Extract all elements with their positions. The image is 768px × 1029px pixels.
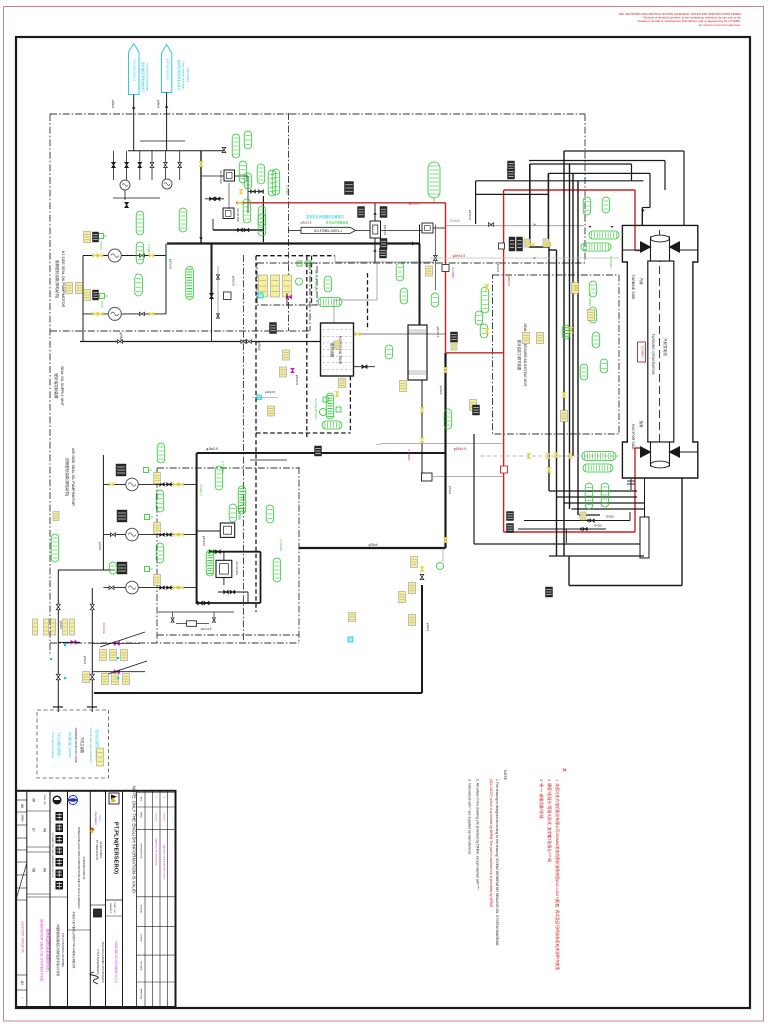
valve filled return b bbox=[244, 228, 246, 231]
slope tick 2 bbox=[102, 661, 147, 676]
tag yellow tank bottom bbox=[339, 379, 346, 388]
title block divider x50 bbox=[49, 791, 51, 1007]
svg-text:ELECTRIKA: ELECTRIKA bbox=[99, 842, 103, 859]
wire air side supply phi18x2.5 bbox=[197, 452, 446, 454]
wire phi76x4 vertical thick bbox=[444, 353, 446, 548]
wire gray h mid bbox=[383, 443, 504, 445]
valve body on vent line bbox=[370, 221, 381, 238]
svg-text:发电机至消泡箱排油管接口: 发电机至消泡箱排油管接口 bbox=[306, 214, 344, 219]
tag dark pair b bbox=[517, 237, 523, 251]
wire air pump row 1 bbox=[103, 483, 196, 485]
wire right nest v0 bbox=[683, 151, 685, 225]
oil separator vessel bbox=[408, 325, 427, 380]
wire main drop to header bbox=[200, 151, 202, 243]
cyan dot (64,677) bbox=[64, 677, 66, 679]
cyan dot (64,644) bbox=[64, 644, 66, 646]
wire top seal right bbox=[680, 249, 698, 251]
tag dark above red bbox=[345, 182, 354, 195]
tag yellow (352,617) bbox=[349, 613, 356, 622]
wire manifold lower bbox=[140, 140, 185, 142]
unit inner divider vertical bbox=[309, 263, 311, 331]
valve tank right lower bbox=[362, 365, 365, 369]
instrument label (593,315) bbox=[589, 307, 597, 323]
tag yellow tank left 2 bbox=[280, 367, 287, 377]
wire right nest v2 bbox=[649, 173, 651, 207]
valve yellow air out b bbox=[179, 586, 181, 589]
turbine main oil tank box bbox=[37, 710, 109, 778]
valve air pump out a bbox=[160, 586, 162, 589]
red supply jog bbox=[446, 352, 505, 354]
red seal oil supply line horizontal bbox=[236, 202, 446, 204]
svg-text:φ57x3.5: φ57x3.5 bbox=[496, 262, 500, 273]
svg-text:φ32x3.5: φ32x3.5 bbox=[301, 221, 312, 225]
unit inner divider vertical 2 bbox=[288, 113, 290, 331]
wire inlet drop 2 bbox=[166, 93, 168, 151]
air side unit box bottom bbox=[157, 634, 299, 636]
valve yellow air out b bbox=[179, 533, 181, 536]
cyan dot (117,677) bbox=[117, 677, 119, 679]
svg-text:SOUTHWEST ELECTRIC POWER DESIG: SOUTHWEST ELECTRIC POWER DESIGN INSTITUT… bbox=[51, 832, 53, 878]
valve yellow pump2 in bbox=[93, 312, 95, 315]
wire elbow 2 bbox=[548, 249, 556, 251]
wire filter return h bbox=[213, 229, 263, 231]
motor instrument box bbox=[145, 515, 154, 520]
valve air pump out b bbox=[167, 533, 169, 536]
wire filter2 top bbox=[223, 552, 225, 561]
svg-text:0~0.6MPa: 0~0.6MPa bbox=[164, 251, 168, 263]
cyan inlet flag 1 bbox=[129, 44, 140, 95]
tag yellow (157,478) bbox=[154, 473, 161, 484]
valve below filter b bbox=[230, 590, 232, 593]
valve yellow tank right bbox=[355, 332, 358, 336]
red supply vertical bbox=[445, 203, 447, 353]
H2 tank unit dashed left bbox=[306, 256, 308, 437]
instrument label (435,300) bbox=[431, 293, 439, 307]
svg-text:DWG. NO.: DWG. NO. bbox=[113, 903, 115, 914]
wire DN150 gray line bbox=[446, 225, 584, 227]
wire right nest elbow bbox=[642, 207, 650, 209]
valve X drop1 upper bbox=[56, 604, 60, 607]
svg-text:空侧密封油泵(带电动机): 空侧密封油泵(带电动机) bbox=[65, 458, 70, 496]
svg-text:排油烟机接口(DN350): 排油烟机接口(DN350) bbox=[68, 732, 72, 758]
valve yellow (337,394) bbox=[335, 392, 339, 395]
tag yellow (56,516) bbox=[53, 512, 59, 521]
valve filled pair b bbox=[215, 197, 217, 200]
wire filter2 drop bbox=[212, 219, 214, 230]
relief orifice box bbox=[187, 621, 197, 627]
valve magenta 2 bbox=[114, 642, 117, 646]
instrument label (248,140) bbox=[244, 131, 252, 149]
instrument label (219,478) bbox=[215, 466, 223, 490]
seal wedge left y452 bbox=[640, 446, 652, 458]
valve air bottom b bbox=[204, 601, 207, 605]
wire DN25 bbox=[524, 520, 630, 522]
svg-text:NOTE:: NOTE: bbox=[503, 770, 507, 781]
valve yellow (531.5,244.5) bbox=[529, 243, 532, 247]
svg-text:TURBINE SIDE: TURBINE SIDE bbox=[631, 274, 635, 300]
instrument stadium h right 2 bbox=[581, 243, 611, 251]
svg-text:Gen Seal Oil Supply: Gen Seal Oil Supply bbox=[314, 270, 317, 292]
valve X drop1 lower bbox=[56, 674, 60, 677]
instrument label (210,563) bbox=[206, 550, 214, 576]
valve open discharge 2 bbox=[241, 340, 244, 344]
wire manifold upper bbox=[128, 150, 224, 152]
instrument label (277,570) bbox=[273, 558, 281, 582]
valve yellow on red line bbox=[238, 201, 240, 204]
instrument label (589,496) bbox=[585, 483, 593, 509]
wire spur 1 bbox=[250, 459, 287, 461]
vacuum pump P2 bbox=[162, 179, 172, 189]
JMK logo bbox=[94, 909, 102, 917]
svg-text:DN25: DN25 bbox=[606, 515, 614, 519]
svg-text:SEAL OIL SUPPLY UNIT: SEAL OIL SUPPLY UNIT bbox=[60, 366, 64, 407]
tag yellow (526,338) bbox=[523, 333, 530, 344]
svg-text:φ57x3.5: φ57x3.5 bbox=[201, 627, 212, 631]
svg-text:φ57x3.5: φ57x3.5 bbox=[468, 210, 472, 221]
instrument label (599,456) bbox=[582, 452, 616, 461]
wire to filter 1 bbox=[197, 530, 220, 532]
tag yellow (86,677) bbox=[83, 672, 90, 683]
svg-text:H2 SIDE SEAL OIL PUMP/MOTOR: H2 SIDE SEAL OIL PUMP/MOTOR bbox=[61, 251, 65, 308]
valve filled bbox=[112, 162, 116, 165]
valve yellow pump2 in b bbox=[98, 312, 100, 315]
svg-text:09/03/20: 09/03/20 bbox=[163, 813, 165, 822]
tag dark (318,451) bbox=[315, 446, 322, 456]
H2 tank unit dashed far left bbox=[255, 256, 257, 433]
gauge stadium h2 bbox=[322, 421, 342, 429]
tank nozzle stubs bbox=[53, 706, 63, 708]
tag yellow (126,679) bbox=[123, 674, 130, 685]
valve filled bbox=[125, 162, 129, 165]
instrument label (160,501) bbox=[156, 490, 164, 512]
instrument label (400,272) bbox=[396, 263, 404, 281]
valve yellow air out a bbox=[173, 533, 175, 536]
svg-text:其: 其 bbox=[562, 768, 566, 772]
orifice box bbox=[224, 292, 232, 300]
svg-text:utama: utama bbox=[98, 814, 102, 822]
unit boundary bottom bbox=[50, 642, 299, 644]
wire filter1 to filter2 bbox=[228, 183, 230, 209]
wire filter loop down bbox=[247, 176, 249, 213]
red loop top horizontal bbox=[504, 189, 635, 191]
svg-text:φ89x4.5: φ89x4.5 bbox=[454, 447, 466, 451]
valve on drain riser bbox=[420, 574, 424, 577]
revision table divider x145 bbox=[144, 791, 146, 1007]
valve open bbox=[178, 162, 182, 165]
title block divider x90.3 bbox=[89, 791, 91, 1007]
instrument label (272,183) bbox=[268, 170, 276, 196]
wire from tag to flange bbox=[356, 229, 422, 231]
svg-text:汽侧: 汽侧 bbox=[639, 278, 644, 285]
valve yellow air out a bbox=[173, 483, 175, 486]
svg-text:C14449: C14449 bbox=[102, 623, 106, 634]
turbine shaft top bbox=[651, 237, 670, 261]
svg-text:Seal oil return pipe connectio: Seal oil return pipe connection bbox=[89, 728, 93, 763]
H2 tank unit dashed right upper bbox=[367, 273, 369, 330]
instrument label (247,211) bbox=[243, 199, 251, 223]
revision table band y955.1 bbox=[137, 954, 176, 956]
title block outer bbox=[16, 791, 176, 1007]
tag yellow (591,315) bbox=[588, 310, 595, 321]
wire drop lower bbox=[211, 296, 213, 342]
revision table band y926.6 bbox=[137, 926, 176, 928]
valve open discharge 1 bbox=[118, 340, 121, 344]
valve yellow pump1 in b bbox=[98, 254, 100, 257]
valve X drop2 lower bbox=[90, 674, 94, 677]
tag dark (454,337) bbox=[451, 332, 458, 342]
valve yellow bbox=[199, 161, 203, 164]
tag yellow (124,655) bbox=[121, 650, 128, 661]
instrument label (584,372) bbox=[580, 364, 588, 380]
wire right nest h4 bbox=[476, 193, 549, 195]
instrument label (593,289) bbox=[589, 281, 597, 297]
valve yellow pump1 in bbox=[93, 254, 95, 257]
oil filter F2 bbox=[223, 208, 234, 219]
svg-text:marubeni: marubeni bbox=[94, 811, 98, 825]
wire air suction header bbox=[102, 455, 104, 570]
wire air right riser thick bbox=[260, 552, 262, 603]
valve yellow row1 in bbox=[109, 483, 112, 487]
valve relief a bbox=[171, 618, 174, 620]
wire drop to separator thick bbox=[419, 244, 421, 326]
wire tank right to red riser bbox=[354, 333, 446, 335]
svg-text:DN15: DN15 bbox=[594, 524, 602, 528]
svg-text:(SO-14027)' which is provided: (SO-14027)' which is provided by DFEM.Th… bbox=[489, 779, 493, 907]
instrument label (479,318) bbox=[475, 311, 483, 325]
tag dark DN25 bbox=[507, 512, 514, 521]
valve bypass b bbox=[216, 314, 219, 316]
tag dark vent right bbox=[380, 207, 387, 218]
H2 unit bold dash left lower bbox=[255, 433, 257, 612]
H2 tank unit dashed right lower bbox=[349, 376, 351, 433]
wire drop to tank 1 bbox=[57, 570, 59, 712]
green box c bbox=[323, 397, 328, 402]
wire bottom seal right bbox=[680, 451, 698, 453]
svg-text:DN150: DN150 bbox=[450, 219, 460, 223]
wire drain riser bbox=[421, 585, 423, 693]
svg-text:JASA WANAJEMEN KONSTRUKSI: JASA WANAJEMEN KONSTRUKSI bbox=[101, 941, 105, 982]
wire left collector vertical bbox=[82, 256, 84, 342]
wire drain branch 1 bbox=[92, 642, 140, 644]
wire H2 pump discharge to tank bbox=[80, 341, 321, 343]
cyan small tag bbox=[258, 293, 263, 298]
svg-text:密封油压力调节装置: 密封油压力调节装置 bbox=[517, 340, 522, 371]
instrument label (434,180) bbox=[428, 162, 440, 198]
green instrument circle tank top bbox=[296, 278, 303, 285]
turbine generator stator bbox=[648, 261, 674, 442]
wire air pump row 2 bbox=[103, 534, 196, 536]
svg-text:P.(M)(1~0: P.(M)(1~0 bbox=[199, 484, 203, 496]
instrument label (485,300) bbox=[481, 287, 489, 313]
svg-text:0~1MPa: 0~1MPa bbox=[285, 185, 289, 195]
valve open filter bypass 2 bbox=[259, 190, 261, 193]
instrument label (484,331) bbox=[480, 324, 488, 338]
wire lower left header bbox=[58, 569, 115, 571]
air side unit box top full bbox=[157, 467, 299, 469]
tag yellow (454,346) bbox=[451, 342, 457, 350]
svg-text:APPROVAL: APPROVAL bbox=[140, 989, 143, 1001]
wire DN15 bbox=[518, 528, 606, 530]
instrument label (389,352) bbox=[385, 345, 393, 359]
tag dark DN15 bbox=[507, 524, 514, 533]
instrument label (189.5,283) bbox=[186, 267, 194, 300]
accumulator sub-unit box bbox=[257, 263, 317, 305]
tag yellow (275,286) bbox=[271, 275, 280, 297]
wire air discharge collector thick bbox=[196, 453, 198, 603]
instrument label (587,206) bbox=[583, 197, 591, 215]
svg-text:SO-F2955-J0201A-05: SO-F2955-J0201A-05 bbox=[21, 921, 25, 952]
PLN flag logo bbox=[109, 793, 119, 804]
valve pump2 out a bbox=[140, 312, 142, 315]
cyan dot (50,658) bbox=[50, 658, 52, 660]
slope tick 1 bbox=[100, 632, 145, 647]
svg-text:CHECK: CHECK bbox=[140, 934, 142, 942]
valve yellow (570,456) bbox=[568, 454, 572, 457]
instrument label (160,553) bbox=[156, 543, 164, 563]
svg-text:2. 硬管T形接头"等接头形式, 其余都T形接头7个阀: 2. 硬管T形接头"等接头形式, 其余都T形接头7个阀 bbox=[547, 779, 552, 862]
svg-text:PT.PLN(PERSERO): PT.PLN(PERSERO) bbox=[96, 949, 100, 974]
svg-text:密封油控制装置: 密封油控制装置 bbox=[54, 373, 59, 399]
design institute name blocks (CJK) bbox=[56, 812, 64, 821]
valve open branch bbox=[434, 255, 438, 258]
valve open manifold end bbox=[222, 147, 226, 150]
wire valve drop bbox=[164, 151, 166, 180]
svg-text:DWG. NO.: DWG. NO. bbox=[43, 795, 45, 806]
svg-text:DATE: DATE bbox=[140, 812, 143, 818]
valve air bottom a bbox=[198, 601, 201, 605]
wire bottom collect h bbox=[474, 543, 640, 545]
wire tank right lower bbox=[354, 366, 375, 368]
wire bottom outer loop h bbox=[569, 585, 682, 587]
red equipment tag on generator bbox=[638, 342, 646, 362]
diagonal cell line bbox=[17, 864, 27, 898]
green circle below thick bbox=[437, 563, 444, 570]
turbine shaft bottom bbox=[651, 442, 670, 466]
instrument label (596,340) bbox=[592, 332, 600, 348]
tag yellow (157,580) bbox=[154, 575, 161, 586]
tag yellow (79,288) bbox=[76, 283, 83, 294]
svg-text:TURBINE MAIN OIL TANK: TURBINE MAIN OIL TANK bbox=[74, 727, 78, 763]
valve yellow (445.5,370) bbox=[444, 368, 448, 371]
svg-text:汽机主油箱: 汽机主油箱 bbox=[80, 737, 85, 754]
valve bypass a bbox=[216, 275, 219, 277]
wire vent to header bbox=[374, 203, 376, 262]
motor box air pump bbox=[117, 562, 127, 574]
svg-text:20860: 20860 bbox=[21, 814, 25, 822]
valve on DN150 bbox=[488, 223, 491, 227]
revision table divider x160 bbox=[159, 791, 161, 1007]
DEC logo bbox=[69, 796, 78, 805]
instrument label (261,174) bbox=[257, 164, 265, 184]
tag yellow (115,679) bbox=[112, 674, 119, 685]
wire H2 pumps collect bbox=[165, 244, 167, 314]
wire bottom inner h bbox=[549, 555, 644, 557]
red line junction box bbox=[501, 466, 508, 473]
valve filled drop bbox=[210, 293, 214, 296]
valve pump1 out b bbox=[149, 254, 151, 257]
svg-text:发电机密封油系统图(P&ID): 发电机密封油系统图(P&ID) bbox=[46, 928, 51, 971]
tag yellow pump2 bbox=[84, 290, 91, 301]
svg-text:φ32x3.5: φ32x3.5 bbox=[232, 276, 236, 287]
wire DN150 to separator bbox=[419, 225, 421, 244]
valve air header a bbox=[209, 550, 211, 553]
svg-text:0~1.0MPa: 0~1.0MPa bbox=[221, 461, 225, 473]
H2 side seal oil pump 1 bbox=[108, 249, 121, 262]
wire to excitor 2 bbox=[557, 496, 638, 498]
wire bottom outer loop v bbox=[681, 478, 683, 586]
svg-text:中国能源建设集团东方锅炉股份有限公司承建: 中国能源建设集团东方锅炉股份有限公司承建 bbox=[56, 924, 60, 976]
svg-text:氢侧密封油泵(带电动机): 氢侧密封油泵(带电动机) bbox=[55, 260, 60, 298]
wire flange to vessel bbox=[644, 478, 646, 517]
valve filled bbox=[138, 162, 142, 165]
valve yellow (487,331) bbox=[485, 329, 489, 332]
instrument label (233,513) bbox=[229, 504, 237, 522]
motor box pump2 bbox=[100, 294, 109, 299]
tag dark vent right low bbox=[380, 239, 387, 250]
wire valve drop bbox=[151, 151, 153, 180]
svg-text:SO-F2955-J0201-4: SO-F2955-J0201-4 bbox=[133, 59, 137, 82]
H2 side seal oil pump 2 bbox=[108, 307, 121, 320]
valve yellow (571,330) bbox=[569, 328, 573, 331]
oil filter air side 2 bbox=[216, 560, 232, 577]
tag dark (511,166) bbox=[508, 161, 515, 171]
wire air header upper thick bbox=[209, 551, 261, 553]
motor instrument box bbox=[144, 468, 153, 473]
valve air header b bbox=[216, 550, 218, 553]
svg-text:DONGFANG ELECTRIC CORPORATION: DONGFANG ELECTRIC CORPORATION AND PT DAL… bbox=[77, 827, 81, 909]
flange symbol bbox=[422, 223, 433, 233]
instrument label (236,146) bbox=[232, 134, 240, 158]
section divider dash-dot bbox=[242, 255, 244, 640]
seal wedge right y452 bbox=[669, 446, 681, 458]
seal oil pressure adjusting unit box bbox=[493, 275, 620, 434]
svg-text:φ76x4: φ76x4 bbox=[257, 342, 261, 351]
svg-text:C14M03: C14M03 bbox=[641, 346, 645, 358]
title block divider x67.5 bbox=[67, 791, 69, 1007]
svg-text:3. Instruments with * are supp: 3. Instruments with * are supplied by ma… bbox=[468, 779, 472, 855]
instrument label (243,172) bbox=[239, 161, 247, 183]
green instrument circle tank bottom bbox=[320, 409, 327, 416]
svg-text:DESCRIPTION: DESCRIPTION bbox=[140, 844, 142, 859]
svg-text:φ57x3.5: φ57x3.5 bbox=[383, 225, 387, 236]
valve pump2 out b bbox=[149, 312, 151, 315]
wire red takeoff v bbox=[262, 196, 264, 242]
wire long vertical 1 upper bbox=[529, 164, 531, 247]
wire drop from adjusting unit bbox=[473, 434, 475, 544]
tag yellow (287,286) bbox=[283, 275, 292, 297]
svg-text:φ76x4: φ76x4 bbox=[439, 386, 443, 395]
revision table band y792.5 bbox=[137, 792, 176, 794]
tag yellow branch bbox=[426, 266, 433, 276]
turbine generator outline bbox=[622, 225, 697, 478]
instrument label (604,366) bbox=[600, 359, 608, 373]
wire long vertical 4 bbox=[569, 164, 571, 509]
wire long bottom drain line bbox=[94, 692, 422, 694]
oil filter air side 1 bbox=[220, 523, 234, 537]
tag dark pump1 bbox=[93, 232, 99, 242]
valve yellow drain riser bbox=[420, 567, 423, 569]
svg-text:φ18x2.5: φ18x2.5 bbox=[206, 447, 218, 451]
wire gray line y258 bbox=[430, 257, 619, 259]
instrument label (276,182) bbox=[272, 169, 280, 195]
svg-text:REVIEW: REVIEW bbox=[140, 962, 142, 972]
instrument label (328,284) bbox=[324, 276, 332, 292]
svg-text:NOTE: ONLY THE ENGLISH INFORMA: NOTE: ONLY THE ENGLISH INFORMATION IS VA… bbox=[131, 786, 136, 893]
svg-text:φ89x4: φ89x4 bbox=[111, 100, 115, 109]
wire main header phi76x4 thick bbox=[167, 242, 420, 244]
valve magenta small bbox=[291, 368, 294, 370]
tag yellow (546,243) bbox=[543, 239, 549, 247]
